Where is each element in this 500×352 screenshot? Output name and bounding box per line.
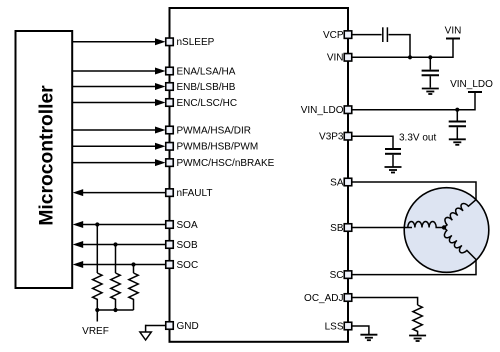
svg-text:PWMC/HSC/nBRAKE: PWMC/HSC/nBRAKE: [177, 158, 275, 169]
svg-text:PWMB/HSB/PWM: PWMB/HSB/PWM: [177, 142, 259, 153]
svg-text:OC_ADJ: OC_ADJ: [304, 293, 343, 304]
svg-text:V3P3: V3P3: [319, 132, 344, 143]
svg-text:VREF: VREF: [82, 326, 109, 337]
svg-text:LSS: LSS: [325, 321, 344, 332]
svg-text:SA: SA: [330, 177, 344, 188]
svg-text:VIN_LDO: VIN_LDO: [301, 105, 344, 116]
svg-text:SB: SB: [330, 223, 344, 234]
svg-text:Microcontroller: Microcontroller: [36, 85, 57, 226]
svg-text:VCP: VCP: [323, 30, 344, 41]
svg-text:SOA: SOA: [177, 220, 198, 231]
svg-text:nFAULT: nFAULT: [177, 188, 213, 199]
svg-text:SOB: SOB: [177, 240, 198, 251]
svg-text:VIN_LDO: VIN_LDO: [450, 79, 493, 90]
svg-text:SOC: SOC: [177, 260, 199, 271]
svg-text:VIN: VIN: [327, 53, 344, 64]
svg-text:ENB/LSB/HB: ENB/LSB/HB: [177, 82, 236, 93]
svg-text:GND: GND: [177, 321, 199, 332]
svg-text:SC: SC: [330, 270, 344, 281]
svg-text:3.3V out: 3.3V out: [399, 133, 436, 144]
svg-text:PWMA/HSA/DIR: PWMA/HSA/DIR: [177, 125, 251, 136]
svg-text:nSLEEP: nSLEEP: [177, 37, 215, 48]
svg-text:VIN: VIN: [445, 26, 462, 37]
svg-text:ENC/LSC/HC: ENC/LSC/HC: [177, 98, 238, 109]
svg-text:ENA/LSA/HA: ENA/LSA/HA: [177, 66, 236, 77]
